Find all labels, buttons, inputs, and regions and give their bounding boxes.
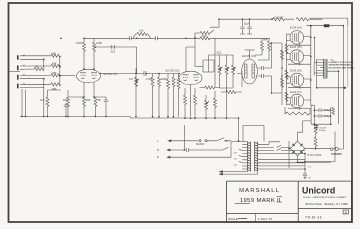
svg-text:1M: 1M <box>129 77 133 81</box>
svg-text:89 Frost Street Westbury, N.: 89 Frost Street Westbury, N.Y. 11590 <box>306 203 349 206</box>
svg-text:70-B-11: 70-B-11 <box>305 216 322 220</box>
svg-text:ECC83 (V2): ECC83 (V2) <box>166 69 180 73</box>
svg-text:B 40 C3200: B 40 C3200 <box>308 153 322 157</box>
svg-text:68K: 68K <box>52 51 57 55</box>
svg-text:1959 MARK: 1959 MARK <box>240 198 275 204</box>
svg-text:MAINS: MAINS <box>196 142 204 146</box>
svg-text:CHOKE: CHOKE <box>274 16 283 20</box>
svg-text:1M: 1M <box>40 98 44 102</box>
svg-text:SCALE: SCALE <box>228 217 238 221</box>
svg-text:470K: 470K <box>146 77 152 81</box>
svg-text:MARSHALL: MARSHALL <box>239 188 280 194</box>
svg-text:100K: 100K <box>76 41 82 45</box>
svg-text:N: N <box>157 148 159 152</box>
svg-text:1M: 1M <box>35 65 39 69</box>
svg-text:STANDBY: STANDBY <box>331 153 342 156</box>
svg-text:.022: .022 <box>216 51 222 55</box>
svg-text:.022: .022 <box>110 50 116 54</box>
svg-text:+100µF: +100µF <box>323 108 332 112</box>
svg-text:ECC83 (V3): ECC83 (V3) <box>242 54 256 58</box>
svg-text:32µF: 32µF <box>244 22 250 26</box>
svg-text:3: 3 <box>345 210 347 214</box>
svg-text:SPEAKER IMPEDANCE: SPEAKER IMPEDANCE <box>329 64 354 67</box>
svg-text:68K: 68K <box>52 87 57 91</box>
svg-text:56K: 56K <box>263 38 268 42</box>
svg-text:68K: 68K <box>52 71 57 75</box>
svg-text:820: 820 <box>86 98 91 102</box>
svg-text:1 JULY 70: 1 JULY 70 <box>258 217 272 221</box>
svg-text:EL34 (V7): EL34 (V7) <box>290 90 302 94</box>
svg-text:CONNECT FOR 16 OHM: CONNECT FOR 16 OHM <box>329 62 354 64</box>
svg-text:II: II <box>277 198 281 204</box>
svg-text:820K: 820K <box>161 77 167 81</box>
svg-text:EL34 (V6): EL34 (V6) <box>290 69 302 73</box>
svg-text:EL34 (V5): EL34 (V5) <box>290 45 302 49</box>
svg-text:.68: .68 <box>97 98 101 102</box>
svg-text:EL34 (V4): EL34 (V4) <box>290 26 302 30</box>
svg-text:AS SHOWN. SEE CHART: AS SHOWN. SEE CHART <box>329 66 356 69</box>
svg-text:E: E <box>157 155 159 159</box>
svg-text:22K: 22K <box>202 34 207 38</box>
svg-text:A GULF + WESTERN SYSTEMS COMPA: A GULF + WESTERN SYSTEMS COMPANY <box>303 196 346 199</box>
svg-text:10K: 10K <box>139 29 144 33</box>
svg-text:100K: 100K <box>96 41 102 45</box>
svg-text:+100µF: +100µF <box>318 130 326 132</box>
svg-text:Unicord: Unicord <box>302 185 335 195</box>
svg-text:820: 820 <box>63 98 68 102</box>
svg-text:68K: 68K <box>52 61 57 65</box>
svg-text:+100µF: +100µF <box>323 114 332 118</box>
svg-text:ECC83 (V1): ECC83 (V1) <box>104 72 118 76</box>
svg-text:+100µF: +100µF <box>319 127 327 129</box>
